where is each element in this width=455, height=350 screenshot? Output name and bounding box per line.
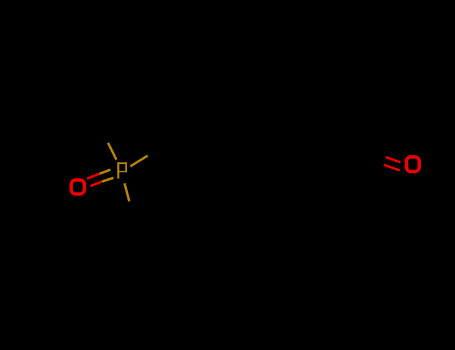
- bond C=O upper line, O-side half (red): [386, 157, 401, 162]
- bond P-C down, P-side half (gold): [125, 183, 130, 201]
- bond P-CH3 up-left, P-side half (gold): [108, 143, 116, 160]
- bond C=O lower line, O-side half (red): [384, 165, 400, 171]
- bond P=O lower line, O-side half (red): [90, 182, 102, 186]
- bond P=O upper line, P-side half (gold): [100, 170, 111, 174]
- atom label O (carbonyl oxygen): [406, 157, 419, 172]
- bond P=O upper line, O-side half (red): [87, 174, 100, 179]
- atom label O (phosphine oxide oxygen): [71, 180, 84, 194]
- bond P=O lower line, P-side half (gold): [102, 178, 114, 182]
- bond P-C up-right, P-side half (gold): [130, 156, 147, 167]
- atom label P: [117, 162, 127, 178]
